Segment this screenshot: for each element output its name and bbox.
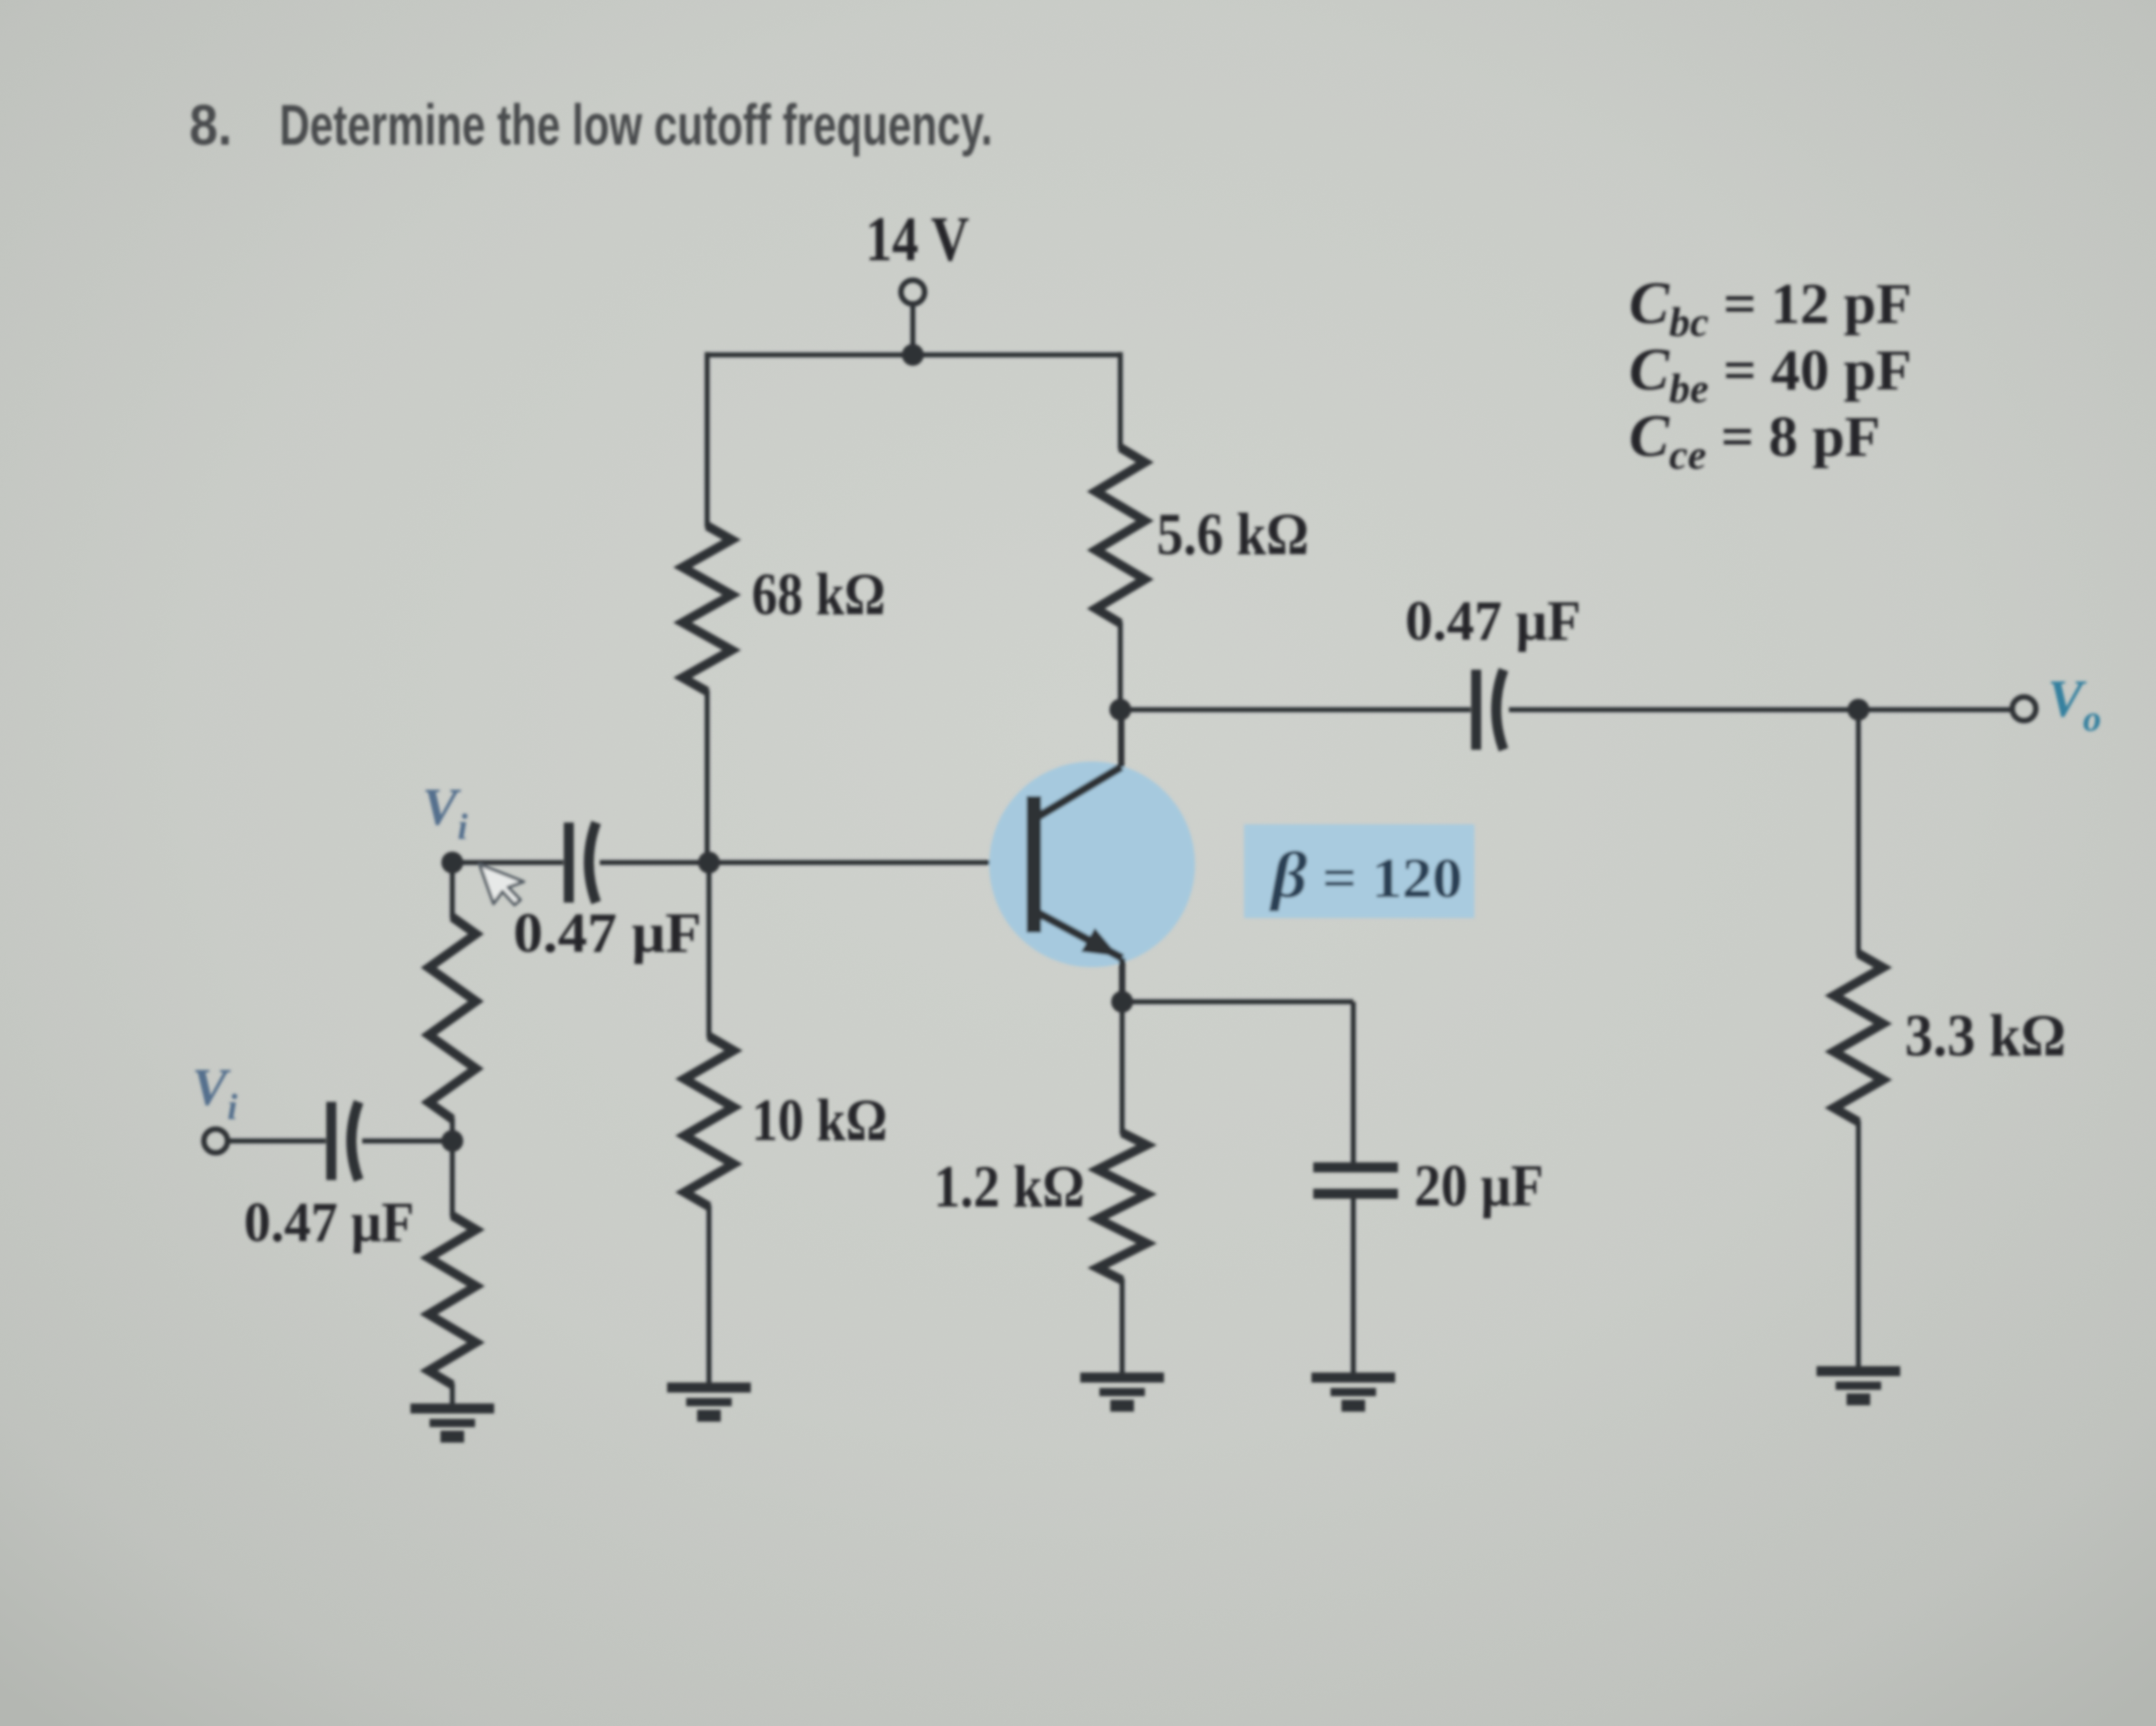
svg-text:5.6 kΩ: 5.6 kΩ <box>1157 501 1309 568</box>
svg-text:68 kΩ: 68 kΩ <box>752 561 886 628</box>
svg-text:0.47 μF: 0.47 μF <box>513 901 702 964</box>
svg-text:8.: 8. <box>189 93 232 157</box>
svg-text:β = 120: β = 120 <box>1269 840 1463 912</box>
svg-text:0.47 μF: 0.47 μF <box>1405 590 1581 652</box>
svg-text:10 kΩ: 10 kΩ <box>752 1087 887 1154</box>
svg-text:1.2 kΩ: 1.2 kΩ <box>934 1155 1085 1220</box>
svg-text:14 V: 14 V <box>865 204 969 274</box>
svg-text:Determine the low cutoff frequ: Determine the low cutoff frequency. <box>279 93 993 157</box>
svg-text:20 μF: 20 μF <box>1414 1153 1544 1219</box>
svg-text:3.3 kΩ: 3.3 kΩ <box>1905 1002 2066 1068</box>
svg-text:0.47 μF: 0.47 μF <box>244 1192 414 1255</box>
svg-text:Cce = 8 pF: Cce = 8 pF <box>1629 403 1880 478</box>
